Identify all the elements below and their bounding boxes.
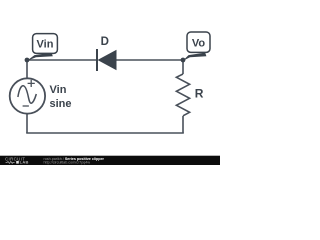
wire right vertical: resistor bottom to bottom-right corner: [182, 116, 184, 133]
svg-text:LAB: LAB: [20, 160, 29, 165]
svg-text:sine: sine: [50, 98, 72, 110]
svg-text:Vo: Vo: [192, 37, 206, 49]
diode D: [97, 49, 117, 71]
wire bottom: bottom-left corner to bottom-right corner: [27, 131, 183, 134]
CircuitLab logo: [5, 156, 29, 164]
plus sign: [28, 80, 35, 87]
sine wave: [18, 86, 36, 104]
wire left vertical: source bottom to bottom-left corner: [26, 114, 28, 133]
svg-text:Vin: Vin: [50, 84, 67, 96]
voltage source V1 Vin sine: [10, 78, 45, 113]
wire top-left: node Vin to diode cathode: [27, 59, 97, 61]
net label Vin pointer: [27, 53, 53, 61]
net label Vo pointer: [183, 53, 207, 61]
node Vin junction dot: [25, 58, 30, 63]
footer bar: [0, 156, 220, 165]
node Vo junction dot: [181, 58, 186, 63]
wire left vertical: node Vin down to source top: [26, 60, 28, 79]
svg-text:D: D: [101, 36, 109, 48]
net label Vo bubble: [187, 32, 210, 52]
svg-text:Vin: Vin: [37, 39, 54, 51]
svg-text:R: R: [195, 87, 204, 101]
wire top-right: diode anode to node Vo: [117, 59, 184, 61]
wire right vertical: node Vo down to resistor top: [182, 60, 184, 74]
resistor R: [176, 74, 189, 116]
svg-text:http://circuitlab.com/c/7pq4w: http://circuitlab.com/c/7pq4w: [44, 161, 91, 165]
minus sign: [23, 105, 29, 107]
net label Vin bubble: [33, 34, 58, 54]
